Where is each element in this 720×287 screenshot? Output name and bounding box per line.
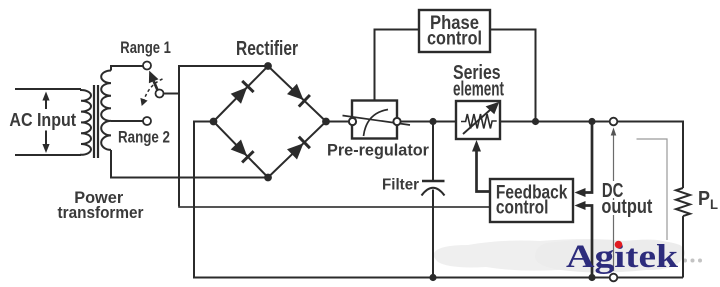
- annotation thin bracket line: [637, 139, 668, 240]
- switch blade arrow to Range 1: [149, 71, 159, 90]
- diode D1 (left node to top node): [231, 87, 247, 104]
- junction minus rail feedback sense: [588, 274, 595, 281]
- junction rectifier bottom node: [264, 174, 272, 182]
- svg-text:Filter: Filter: [382, 176, 419, 193]
- junction rectifier right node: [322, 118, 330, 126]
- diode D4 (bottom node to right node): [287, 143, 304, 159]
- watermark trailing dots: [683, 259, 702, 263]
- pre-regulator switch blade: [343, 116, 411, 126]
- pre-regulator box: [352, 101, 397, 139]
- wire rectifier output to pre-regulator: [326, 121, 349, 123]
- resistor PL (load): [676, 188, 690, 216]
- filter capacitor C1 top lead: [432, 122, 434, 182]
- wire series element to output rail: [500, 121, 610, 123]
- watermark smudge: [434, 239, 674, 271]
- junction filter tap: [429, 118, 436, 125]
- terminal DC output plus: [610, 118, 618, 126]
- logo red dot: [615, 241, 623, 249]
- pre-regulator right contact: [393, 118, 400, 125]
- svg-text:Rectifier: Rectifier: [236, 38, 298, 60]
- svg-text:L: L: [710, 196, 718, 212]
- junction phase control tap: [532, 118, 539, 125]
- feedback sense line from plus rail: [575, 122, 593, 198]
- wire switch pole to bus: [164, 93, 180, 95]
- rectifier bridge frame: [214, 66, 327, 178]
- series element box: [456, 101, 500, 139]
- svg-text:element: element: [453, 79, 504, 101]
- switch pole terminal: [156, 90, 164, 98]
- wire negative bus from rectifier left node to bottom rail: [194, 122, 683, 278]
- pre-regulator control arc: [364, 110, 389, 137]
- terminal Range 1: [143, 62, 151, 70]
- transformer T1 core: [93, 85, 95, 158]
- wire phase control to main rail: [490, 30, 536, 122]
- phase control box: [419, 10, 490, 52]
- feedback drive arrow to series element: [472, 140, 490, 192]
- label PL: [698, 188, 718, 212]
- junction minus rail filter: [429, 274, 436, 281]
- wire pre-regulator top to phase control: [375, 30, 420, 101]
- filter capacitor C1 bottom lead: [432, 190, 434, 278]
- DC output annotation arrow: [611, 128, 617, 272]
- svg-text:output: output: [601, 196, 652, 218]
- wire secondary top to Range 1 terminal: [111, 66, 143, 71]
- transformer T1 secondary winding: [101, 71, 111, 150]
- AC input voltage double arrow: [42, 92, 49, 154]
- svg-text:P: P: [698, 188, 710, 210]
- terminal DC output minus: [610, 274, 618, 282]
- label DC output: [600, 180, 625, 202]
- terminal Range 2: [143, 117, 151, 125]
- wire pre-regulator to series element: [401, 121, 456, 123]
- svg-text:control: control: [496, 198, 549, 219]
- wire bus: top corner to mid rail (feeds rectifier top and feedback sense): [179, 66, 268, 207]
- filter capacitor C1 plates: [422, 180, 445, 182]
- wire load bottom: [682, 216, 684, 277]
- junction rectifier top node: [264, 62, 272, 70]
- junction feedback sense plus: [588, 118, 595, 125]
- svg-text:Range 2: Range 2: [118, 128, 170, 147]
- svg-text:AC Input: AC Input: [9, 110, 76, 130]
- wire output rail from plus terminal to load: [617, 122, 683, 189]
- series element variable resistor: [461, 102, 499, 134]
- svg-text:control: control: [427, 28, 482, 49]
- pre-regulator left contact: [349, 118, 356, 125]
- wire secondary tap to Range 2 terminal: [111, 120, 143, 122]
- transformer T1 primary winding: [81, 89, 91, 155]
- junction rectifier left node: [210, 118, 218, 126]
- feedback sense line from minus rail: [575, 201, 593, 278]
- svg-text:Pre-regulator: Pre-regulator: [327, 141, 429, 160]
- svg-text:transformer: transformer: [58, 204, 145, 222]
- svg-text:Agitek: Agitek: [566, 239, 679, 275]
- switch dashed travel arc toward Range 2: [140, 79, 162, 106]
- wire AC input top lead: [15, 88, 81, 90]
- feedback control box: [490, 179, 573, 222]
- wire secondary bottom to rectifier bottom node: [111, 150, 268, 178]
- diode D3 (left node to bottom node): [231, 140, 247, 156]
- svg-text:Range 1: Range 1: [120, 38, 171, 57]
- wire AC input bottom lead: [15, 154, 81, 156]
- diode D2 (top node to right node): [287, 84, 304, 100]
